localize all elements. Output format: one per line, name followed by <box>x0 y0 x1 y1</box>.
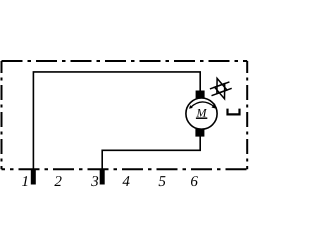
motor M1 body <box>186 98 217 129</box>
washer nozzle downward jet triangle <box>215 84 225 99</box>
washer nozzle upper flow line <box>210 82 230 89</box>
track number 4 <box>122 176 129 186</box>
motor M1 bottom brush terminal <box>195 129 204 137</box>
motor M1 label underline <box>196 117 207 119</box>
track number 6 <box>191 176 198 186</box>
enclosure dash-dot boundary left edge <box>1 61 3 169</box>
terminal tick 1 <box>31 169 36 185</box>
motor M1 rotation arrow <box>189 102 216 109</box>
wire from motor bottom left and down to terminal 3 <box>102 136 200 169</box>
terminal tick 3 <box>100 169 105 185</box>
motor M1 letter M label <box>196 109 207 117</box>
track number 2 <box>54 176 61 186</box>
enclosure dash-dot boundary bottom edge <box>2 168 248 170</box>
enclosure dash-dot boundary right edge <box>246 61 248 169</box>
washer nozzle lower flow line <box>212 88 232 95</box>
track number 5 <box>159 176 166 186</box>
adjacent connector bracket <box>228 109 240 115</box>
wire from terminal 1 up and across to motor top <box>33 72 200 169</box>
motor M1 top brush terminal <box>196 91 205 99</box>
track number 1 <box>22 176 27 186</box>
washer nozzle upward jet triangle <box>217 78 227 93</box>
track number 3 <box>91 176 98 186</box>
enclosure dash-dot boundary top edge <box>2 60 248 62</box>
